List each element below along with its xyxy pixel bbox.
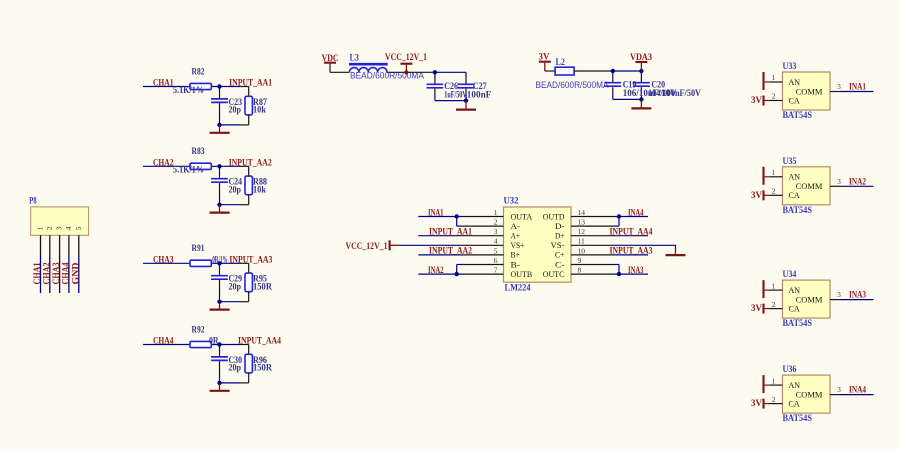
- svg-text:B+: B+: [511, 250, 521, 260]
- svg-text:3: 3: [837, 82, 841, 91]
- svg-text:P8: P8: [29, 197, 37, 207]
- svg-text:BAT54S: BAT54S: [783, 206, 813, 216]
- svg-text:INPUT_AA4: INPUT_AA4: [238, 337, 281, 347]
- svg-text:AN: AN: [789, 285, 801, 295]
- svg-text:5: 5: [494, 246, 498, 255]
- svg-text:CA: CA: [789, 303, 801, 313]
- svg-text:5.1K/1%: 5.1K/1%: [173, 166, 204, 176]
- svg-text:INA1: INA1: [849, 83, 866, 93]
- svg-text:OUTA: OUTA: [511, 211, 533, 221]
- svg-text:OUTD: OUTD: [543, 211, 565, 221]
- svg-text:20p: 20p: [229, 186, 242, 196]
- svg-text:0R: 0R: [209, 337, 219, 347]
- svg-text:D+: D+: [555, 231, 565, 241]
- svg-text:CHA4: CHA4: [153, 337, 174, 347]
- svg-text:5.1K/1%: 5.1K/1%: [173, 86, 204, 96]
- svg-text:VCC_12V_1: VCC_12V_1: [385, 53, 427, 63]
- svg-text:1: 1: [772, 281, 776, 290]
- svg-text:OUTB: OUTB: [511, 269, 533, 279]
- svg-text:2: 2: [45, 226, 54, 230]
- svg-text:100nF: 100nF: [467, 91, 492, 101]
- svg-text:5: 5: [74, 226, 83, 230]
- svg-text:A-: A-: [511, 221, 521, 231]
- svg-text:C-: C-: [555, 259, 565, 269]
- svg-text:LM224: LM224: [505, 284, 531, 294]
- svg-text:INPUT_AA4: INPUT_AA4: [610, 228, 653, 238]
- svg-text:INA1: INA1: [428, 208, 444, 218]
- svg-text:20p: 20p: [229, 106, 242, 116]
- svg-text:VS-: VS-: [551, 240, 565, 250]
- svg-text:CA: CA: [789, 190, 801, 200]
- svg-text:2: 2: [772, 92, 776, 101]
- svg-text:R83: R83: [192, 147, 205, 157]
- svg-text:3V: 3V: [751, 399, 762, 409]
- svg-text:U34: U34: [783, 270, 797, 280]
- svg-text:INA3: INA3: [849, 291, 866, 301]
- svg-text:1: 1: [772, 376, 776, 385]
- svg-text:1: 1: [36, 226, 45, 230]
- svg-text:150R: 150R: [253, 283, 272, 293]
- svg-text:0R/1%: 0R/1%: [212, 256, 228, 266]
- svg-text:AN: AN: [789, 380, 801, 390]
- svg-text:3V: 3V: [751, 304, 762, 314]
- svg-text:R92: R92: [192, 325, 205, 335]
- svg-text:U32: U32: [504, 196, 519, 206]
- svg-text:L3: L3: [350, 53, 360, 63]
- svg-text:VS+: VS+: [511, 240, 525, 250]
- svg-text:6: 6: [494, 256, 498, 265]
- svg-text:1: 1: [772, 73, 776, 82]
- svg-text:BAT54S: BAT54S: [783, 111, 813, 121]
- svg-text:INA3: INA3: [628, 266, 644, 276]
- svg-text:2: 2: [772, 300, 776, 309]
- svg-text:1uF/50V: 1uF/50V: [444, 91, 467, 101]
- svg-text:INPUT_AA3: INPUT_AA3: [610, 247, 653, 257]
- svg-text:INPUT_AA1: INPUT_AA1: [429, 228, 472, 238]
- svg-text:INPUT_AA1: INPUT_AA1: [229, 79, 272, 89]
- svg-text:INPUT_AA2: INPUT_AA2: [429, 247, 472, 257]
- svg-text:150R: 150R: [253, 364, 272, 374]
- svg-text:D-: D-: [555, 221, 565, 231]
- svg-text:BAT54S: BAT54S: [783, 414, 813, 424]
- svg-text:R82: R82: [192, 67, 205, 77]
- svg-text:INA4: INA4: [628, 208, 644, 218]
- svg-text:INA2: INA2: [849, 177, 866, 187]
- svg-text:3: 3: [55, 226, 64, 230]
- svg-text:GND: GND: [71, 262, 81, 284]
- svg-text:2: 2: [772, 395, 776, 404]
- svg-text:U33: U33: [783, 62, 797, 72]
- svg-text:INA2: INA2: [428, 266, 444, 276]
- svg-text:1: 1: [772, 168, 776, 177]
- svg-text:C+: C+: [555, 250, 565, 260]
- svg-text:CHA3: CHA3: [153, 256, 174, 266]
- svg-text:BEAD/600R/500MA: BEAD/600R/500MA: [536, 80, 610, 90]
- svg-text:BAT54S: BAT54S: [783, 319, 813, 329]
- svg-text:CA: CA: [789, 398, 801, 408]
- svg-text:L2: L2: [556, 58, 566, 68]
- svg-text:3: 3: [837, 290, 841, 299]
- svg-text:INA4: INA4: [849, 386, 866, 396]
- svg-text:12: 12: [578, 227, 586, 236]
- svg-text:9: 9: [578, 256, 582, 265]
- svg-text:3: 3: [494, 227, 498, 236]
- svg-text:2: 2: [494, 218, 498, 227]
- svg-text:14: 14: [578, 208, 586, 217]
- svg-text:3: 3: [837, 385, 841, 394]
- svg-text:10k: 10k: [253, 186, 267, 196]
- svg-text:CHA4: CHA4: [61, 262, 71, 284]
- svg-text:CHA2: CHA2: [42, 262, 52, 284]
- svg-text:3V: 3V: [751, 191, 762, 201]
- svg-text:AN: AN: [789, 77, 801, 87]
- svg-text:104/100nF/50V: 104/100nF/50V: [648, 89, 701, 99]
- svg-text:20p: 20p: [229, 283, 242, 293]
- svg-text:AN: AN: [789, 172, 801, 182]
- svg-text:8: 8: [578, 266, 582, 275]
- svg-text:20p: 20p: [229, 364, 242, 374]
- svg-text:10: 10: [578, 246, 586, 255]
- svg-text:4: 4: [64, 226, 73, 230]
- svg-text:CHA1: CHA1: [153, 79, 174, 89]
- svg-text:3: 3: [837, 177, 841, 186]
- svg-text:7: 7: [494, 266, 498, 275]
- svg-text:VCC_12V_1: VCC_12V_1: [346, 242, 388, 252]
- svg-text:INPUT_AA3: INPUT_AA3: [229, 256, 272, 266]
- svg-text:OUTC: OUTC: [543, 269, 565, 279]
- svg-text:11: 11: [578, 237, 585, 246]
- svg-text:10k: 10k: [253, 106, 267, 116]
- svg-text:U36: U36: [783, 365, 797, 375]
- svg-text:A+: A+: [511, 231, 521, 241]
- svg-text:13: 13: [578, 218, 586, 227]
- svg-text:CA: CA: [789, 95, 801, 105]
- svg-text:3V: 3V: [751, 96, 762, 106]
- svg-text:CHA2: CHA2: [153, 159, 174, 169]
- svg-text:4: 4: [494, 237, 498, 246]
- svg-text:1: 1: [494, 208, 498, 217]
- svg-text:U35: U35: [783, 157, 797, 167]
- svg-text:2: 2: [772, 187, 776, 196]
- svg-text:B-: B-: [511, 259, 521, 269]
- svg-text:R91: R91: [192, 244, 205, 254]
- svg-text:INPUT_AA2: INPUT_AA2: [229, 159, 272, 169]
